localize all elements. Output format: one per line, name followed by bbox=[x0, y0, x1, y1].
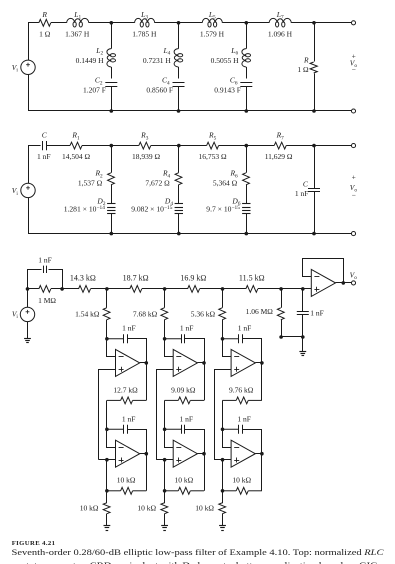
wire N1 to minus1 bbox=[165, 339, 174, 357]
capacitor 1 nF GIC upper bbox=[165, 338, 181, 340]
wire bbox=[28, 22, 39, 24]
wire out1 down bbox=[146, 363, 148, 401]
wire bbox=[47, 145, 71, 147]
svg-text:11.5 kΩ: 11.5 kΩ bbox=[239, 274, 265, 283]
wire N1 to minus1 bbox=[107, 339, 116, 357]
wire GIC top bbox=[222, 289, 224, 308]
wire bbox=[142, 288, 165, 290]
svg-text:1.096 H: 1.096 H bbox=[268, 30, 293, 39]
wire shunt C upper bbox=[314, 146, 316, 189]
capacitor C shunt 1 nF bbox=[308, 188, 320, 190]
wire left rail upper (top ckt) bbox=[28, 23, 30, 60]
svg-text:1.54 kΩ: 1.54 kΩ bbox=[75, 309, 100, 318]
node load bottom bbox=[312, 109, 316, 113]
wire branch R2 upper bbox=[111, 146, 113, 173]
resistor 18.7 kohm bbox=[130, 286, 142, 293]
wire bbox=[291, 22, 314, 24]
wire bypass left bbox=[28, 270, 42, 289]
wire branch R6 upper bbox=[246, 146, 248, 173]
node N3 bbox=[221, 428, 225, 432]
wire out1 down bbox=[261, 363, 263, 401]
wire branch middle bbox=[178, 185, 180, 204]
wire branch middle bbox=[178, 67, 180, 79]
svg-text:7,672 Ω: 7,672 Ω bbox=[145, 178, 170, 187]
svg-text:1 nF: 1 nF bbox=[237, 414, 251, 423]
svg-text:R: R bbox=[41, 10, 47, 19]
wire bbox=[286, 145, 314, 147]
capacitor 1 nF GIC upper bbox=[223, 338, 239, 340]
svg-text:16,753 Ω: 16,753 Ω bbox=[199, 152, 228, 161]
wire bbox=[219, 145, 247, 147]
wire shunt C lower bbox=[314, 192, 316, 234]
node out1 bbox=[145, 361, 149, 365]
wire bbox=[222, 22, 246, 24]
node N5 bbox=[221, 489, 225, 493]
op-amp GIC lower bbox=[231, 440, 255, 467]
inductor L3 bbox=[135, 18, 155, 22]
wire bbox=[62, 288, 78, 290]
op-amp GIC upper bbox=[173, 349, 197, 376]
node source-rail bbox=[26, 287, 30, 291]
wire bbox=[28, 145, 41, 147]
wire to N1 bbox=[164, 320, 166, 339]
node shunt C bottom bbox=[312, 232, 316, 236]
capacitor C2 bbox=[105, 82, 117, 84]
resistor 9.76 kΩ bbox=[223, 399, 237, 401]
wire bottom rail (mid ckt) bbox=[28, 233, 352, 235]
capacitor C series 1 nF bbox=[42, 141, 44, 150]
node shunt join left bbox=[279, 335, 283, 339]
wire bbox=[314, 22, 352, 24]
resistor 1 Mohm input bbox=[39, 286, 51, 293]
source Vi (bot ckt) bbox=[20, 307, 34, 321]
wire plus1 to plus2 (far-left) bbox=[99, 370, 116, 460]
node out1 bbox=[260, 361, 264, 365]
wire to 10k vert bbox=[164, 491, 166, 504]
svg-text:1 nF: 1 nF bbox=[37, 152, 51, 161]
terminal out+ (mid ckt) bbox=[351, 144, 355, 148]
op-amp GIC lower bbox=[173, 440, 197, 467]
svg-text:1 nF: 1 nF bbox=[180, 324, 194, 333]
wire bypass right bbox=[49, 270, 63, 289]
node plus2 bbox=[221, 458, 225, 462]
svg-text:−: − bbox=[352, 191, 356, 200]
capacitor 1 nF GIC lower bbox=[223, 428, 239, 430]
ground at source bbox=[24, 339, 31, 343]
resistor 14.3 kohm bbox=[79, 286, 91, 293]
resistor R5 bbox=[207, 142, 219, 149]
svg-text:10 kΩ: 10 kΩ bbox=[117, 476, 136, 485]
wire plus1 to plus2 (far-left) bbox=[157, 370, 174, 460]
node out2 bbox=[260, 452, 264, 456]
wire N1 to minus1 bbox=[223, 339, 232, 357]
svg-text:1 nF: 1 nF bbox=[295, 189, 309, 198]
wire N5 vertical bbox=[164, 460, 166, 491]
svg-text:0.9143 F: 0.9143 F bbox=[214, 86, 241, 95]
node N3 bbox=[105, 428, 109, 432]
svg-text:10 kΩ: 10 kΩ bbox=[232, 476, 251, 485]
svg-text:0.1449 H: 0.1449 H bbox=[76, 56, 105, 65]
wire to ground bbox=[222, 514, 224, 526]
wire shunt cap upper bbox=[302, 289, 304, 311]
svg-text:5.36 kΩ: 5.36 kΩ bbox=[191, 309, 216, 318]
terminal out- (mid ckt) bbox=[351, 232, 355, 236]
node B2 bbox=[163, 287, 167, 291]
svg-text:9.09 kΩ: 9.09 kΩ bbox=[171, 386, 196, 395]
svg-text:1.06 MΩ: 1.06 MΩ bbox=[246, 307, 274, 316]
wire cap2 to out2 bbox=[243, 430, 262, 454]
wire 1.06M lower bbox=[282, 320, 303, 337]
resistor 5.36 kΩ bbox=[219, 308, 226, 320]
resistor 10 kohm horizontal bbox=[107, 490, 121, 492]
inductor L1 bbox=[67, 18, 89, 22]
svg-text:R: R bbox=[303, 56, 309, 65]
wire bbox=[107, 288, 130, 290]
wire GIC top bbox=[164, 289, 166, 308]
svg-text:7.68 kΩ: 7.68 kΩ bbox=[133, 309, 158, 318]
wire branch middle bbox=[111, 67, 113, 79]
resistor R3 bbox=[139, 142, 151, 149]
wire load lower bbox=[314, 74, 316, 112]
FDNR D6 bbox=[242, 204, 250, 214]
wire to ground bbox=[106, 514, 108, 526]
svg-text:1 nF: 1 nF bbox=[238, 324, 252, 333]
node branch bottom (mid ckt) bbox=[177, 232, 181, 236]
resistor 7.68 kΩ bbox=[161, 308, 168, 320]
wire bbox=[28, 288, 39, 290]
wire left rail lower (top ckt) bbox=[28, 75, 30, 112]
wire GIC top bbox=[106, 289, 108, 308]
svg-text:14.3 kΩ: 14.3 kΩ bbox=[70, 274, 96, 283]
wire bbox=[258, 288, 281, 290]
wire buffer feedback bbox=[303, 259, 344, 283]
resistor R7 bbox=[274, 142, 286, 149]
wire branch L6 upper bbox=[246, 23, 248, 49]
node 4 (mid ckt) bbox=[312, 144, 316, 148]
wire N5 vertical bbox=[222, 460, 224, 491]
node N5 bbox=[163, 489, 167, 493]
ground GIC bbox=[219, 526, 226, 531]
svg-text:14,504 Ω: 14,504 Ω bbox=[62, 152, 91, 161]
svg-text:5,364 Ω: 5,364 Ω bbox=[213, 178, 238, 187]
svg-text:0.7231 H: 0.7231 H bbox=[143, 56, 172, 65]
wire plus2 row bbox=[98, 459, 115, 461]
svg-text:1 Ω: 1 Ω bbox=[39, 30, 51, 39]
wire branch L2 upper bbox=[111, 23, 113, 49]
op-amp GIC upper bbox=[116, 349, 140, 376]
svg-text:18.7 kΩ: 18.7 kΩ bbox=[123, 274, 149, 283]
wire N3 to minus2 bbox=[165, 430, 174, 448]
wire out2 down bbox=[204, 454, 206, 491]
wire bbox=[151, 145, 179, 147]
node N1 bbox=[163, 337, 167, 341]
resistor 10 kohm horizontal bbox=[165, 490, 179, 492]
node 1 (mid ckt) bbox=[110, 144, 114, 148]
svg-text:+: + bbox=[352, 172, 356, 181]
node B3 bbox=[221, 287, 225, 291]
capacitor 1 nF shunt bbox=[297, 311, 309, 313]
wire source lower (bot ckt) bbox=[27, 322, 29, 339]
resistor 9.09 kΩ bbox=[165, 399, 179, 401]
terminal Vo (bot ckt) bbox=[351, 281, 355, 285]
wire out1 bbox=[197, 362, 204, 364]
svg-text:1 nF: 1 nF bbox=[122, 414, 136, 423]
wire plus2 row bbox=[156, 459, 173, 461]
wire out2 down bbox=[261, 454, 263, 491]
node shunt join bbox=[301, 335, 305, 339]
node branch bottom bbox=[245, 109, 249, 113]
svg-text:0.5055 H: 0.5055 H bbox=[211, 56, 240, 65]
node bypass right bbox=[60, 287, 64, 291]
wire bbox=[89, 22, 112, 24]
wire bbox=[246, 22, 269, 24]
ground GIC bbox=[161, 526, 168, 531]
wire out2 bbox=[197, 453, 204, 455]
node 4 (top ckt) bbox=[312, 21, 316, 25]
svg-text:16.9 kΩ: 16.9 kΩ bbox=[180, 274, 206, 283]
node 1 (top ckt) bbox=[110, 21, 114, 25]
resistor R (source, 1 ohm) bbox=[39, 19, 51, 26]
svg-text:12.7 kΩ: 12.7 kΩ bbox=[113, 386, 138, 395]
resistor R6 bbox=[243, 173, 250, 185]
wire branch middle bbox=[246, 67, 248, 79]
op-amp output buffer bbox=[311, 269, 335, 296]
wire bbox=[111, 22, 134, 24]
wire to ground bbox=[164, 514, 166, 526]
resistor 10 kohm horizontal bbox=[223, 490, 237, 492]
node N1 bbox=[221, 337, 225, 341]
resistor 10 kohm vertical bbox=[161, 503, 168, 514]
svg-text:−: − bbox=[352, 65, 356, 74]
node out1 bbox=[202, 361, 206, 365]
node N1 bbox=[105, 337, 109, 341]
resistor R load 1 ohm bbox=[310, 62, 317, 73]
svg-text:0.8560 F: 0.8560 F bbox=[146, 86, 173, 95]
capacitor 1 nF GIC lower bbox=[165, 428, 181, 430]
op-amp GIC upper bbox=[231, 349, 255, 376]
wire shunt cap lower bbox=[302, 315, 304, 352]
node plus2 bbox=[105, 458, 109, 462]
terminal out+ (top ckt) bbox=[351, 21, 355, 25]
wire to 10k vert bbox=[106, 491, 108, 504]
wire plus2 row bbox=[214, 459, 231, 461]
wire N3 to minus2 bbox=[223, 430, 232, 448]
FDNR D4 bbox=[175, 204, 183, 214]
resistor 16.9 kohm bbox=[188, 286, 200, 293]
capacitor C4 bbox=[173, 82, 185, 84]
wire bbox=[314, 145, 352, 147]
wire N3 vertical bbox=[222, 400, 224, 429]
wire bbox=[200, 288, 223, 290]
wire bbox=[179, 22, 203, 24]
wire source upper (bot ckt) bbox=[27, 289, 29, 307]
wire bbox=[281, 288, 303, 290]
resistor 1.06 Mohm bbox=[277, 308, 284, 320]
svg-text:18,939 Ω: 18,939 Ω bbox=[132, 152, 161, 161]
wire cap2 to out2 bbox=[128, 430, 147, 454]
wire branch L4 upper bbox=[178, 23, 180, 49]
op-amp GIC lower bbox=[116, 440, 140, 467]
ground shunt bbox=[299, 352, 306, 356]
svg-text:1,537 Ω: 1,537 Ω bbox=[78, 178, 103, 187]
node N3 bbox=[163, 428, 167, 432]
svg-text:1 nF: 1 nF bbox=[122, 324, 136, 333]
svg-text:9.76 kΩ: 9.76 kΩ bbox=[229, 386, 254, 395]
ground GIC bbox=[104, 526, 111, 531]
wire buffer output bbox=[336, 282, 352, 284]
wire branch lower bbox=[111, 87, 113, 112]
wire bbox=[82, 145, 111, 147]
wire out2 down bbox=[146, 454, 148, 491]
resistor 12.7 kΩ bbox=[107, 399, 121, 401]
node branch bottom (mid ckt) bbox=[110, 232, 114, 236]
wire branch lower bbox=[246, 87, 248, 112]
wire 1.06M upper bbox=[281, 289, 283, 308]
inductor L7 bbox=[269, 18, 291, 22]
svg-text:1 MΩ: 1 MΩ bbox=[38, 296, 56, 305]
node cap top bbox=[301, 287, 305, 291]
node 2 (top ckt) bbox=[177, 21, 181, 25]
wire load upper bbox=[314, 23, 316, 62]
wire bbox=[51, 288, 62, 290]
svg-text:10 kΩ: 10 kΩ bbox=[137, 504, 156, 513]
wire cap1 to out1 bbox=[243, 339, 262, 363]
wire branch lower bbox=[111, 214, 113, 234]
svg-text:10 kΩ: 10 kΩ bbox=[80, 504, 99, 513]
inductor L5 bbox=[202, 18, 222, 22]
wire to buffer + bbox=[303, 288, 312, 290]
node out2 bbox=[145, 452, 149, 456]
source Vi (mid ckt) bbox=[21, 183, 35, 197]
wire branch middle bbox=[246, 185, 248, 204]
capacitor 1 nF GIC upper bbox=[107, 338, 123, 340]
wire left rail upper (mid ckt) bbox=[28, 146, 30, 184]
wire bbox=[91, 288, 107, 290]
wire plus1 to plus2 (far-left) bbox=[215, 370, 232, 460]
wire to N1 bbox=[222, 320, 224, 339]
svg-text:10 kΩ: 10 kΩ bbox=[174, 476, 193, 485]
wire bbox=[155, 22, 179, 24]
svg-text:1.785 H: 1.785 H bbox=[132, 30, 157, 39]
wire out1 bbox=[255, 362, 262, 364]
resistor R2 bbox=[108, 173, 115, 185]
wire bottom rail (top ckt) bbox=[28, 110, 352, 112]
wire out1 down bbox=[204, 363, 206, 401]
node 1.06M top bbox=[279, 287, 283, 291]
node buffer output bbox=[342, 281, 346, 285]
node out2 bbox=[202, 452, 206, 456]
terminal out- (top ckt) bbox=[351, 109, 355, 113]
wire to 10k vert bbox=[222, 491, 224, 504]
wire cap2 to out2 bbox=[185, 430, 205, 454]
wire N3 vertical bbox=[106, 400, 108, 429]
svg-text:FIGURE 4.21: FIGURE 4.21 bbox=[12, 540, 56, 547]
node 2 (mid ckt) bbox=[177, 144, 181, 148]
wire branch middle bbox=[111, 185, 113, 204]
wire cap1 to out1 bbox=[185, 339, 205, 363]
svg-text:1 nF: 1 nF bbox=[38, 255, 52, 264]
wire bbox=[165, 288, 188, 290]
wire bbox=[223, 288, 246, 290]
node 3 (top ckt) bbox=[245, 21, 249, 25]
resistor R4 bbox=[175, 173, 182, 185]
svg-text:1.579 H: 1.579 H bbox=[200, 30, 225, 39]
wire branch lower bbox=[178, 214, 180, 234]
resistor 11.5 kohm bbox=[246, 286, 258, 293]
svg-text:Seventh-order 0.28/60-dB ellip: Seventh-order 0.28/60-dB elliptic low-pa… bbox=[12, 548, 384, 557]
node B1 bbox=[105, 287, 109, 291]
wire N3 to minus2 bbox=[107, 430, 116, 448]
svg-text:1.207 F: 1.207 F bbox=[83, 86, 106, 95]
capacitor C6 bbox=[240, 82, 252, 84]
wire N3 vertical bbox=[164, 400, 166, 429]
wire N5 vertical bbox=[106, 460, 108, 491]
wire left rail lower (mid ckt) bbox=[28, 198, 30, 234]
svg-text:1.367 H: 1.367 H bbox=[65, 30, 90, 39]
inductor L6 bbox=[242, 49, 246, 67]
node branch bottom (mid ckt) bbox=[245, 232, 249, 236]
svg-text:11,629 Ω: 11,629 Ω bbox=[265, 152, 293, 161]
FDNR D2 bbox=[107, 204, 115, 214]
wire cap1 to out1 bbox=[128, 339, 147, 363]
wire branch lower bbox=[246, 214, 248, 234]
resistor 10 kohm vertical bbox=[103, 503, 110, 514]
node branch bottom bbox=[110, 109, 114, 113]
wire branch lower bbox=[178, 87, 180, 112]
resistor 1.54 kΩ bbox=[103, 308, 110, 320]
svg-text:1 nF: 1 nF bbox=[310, 308, 324, 317]
resistor 10 kohm vertical bbox=[219, 503, 226, 514]
wire bbox=[246, 145, 274, 147]
capacitor 1 nF GIC lower bbox=[107, 428, 123, 430]
node branch bottom bbox=[177, 109, 181, 113]
wire bbox=[179, 145, 207, 147]
wire bbox=[111, 145, 139, 147]
capacitor 1 nF input bypass bbox=[43, 266, 45, 273]
wire out1 bbox=[140, 362, 147, 364]
svg-text:1 nF: 1 nF bbox=[180, 414, 194, 423]
inductor L4 bbox=[174, 49, 178, 67]
wire out2 bbox=[255, 453, 262, 455]
resistor R1 bbox=[70, 142, 82, 149]
node 3 (mid ckt) bbox=[245, 144, 249, 148]
wire out2 bbox=[140, 453, 147, 455]
node N5 bbox=[105, 489, 109, 493]
svg-text:1 Ω: 1 Ω bbox=[297, 65, 309, 74]
inductor L2 bbox=[107, 49, 111, 67]
wire to N1 bbox=[106, 320, 108, 339]
wire branch R4 upper bbox=[178, 146, 180, 173]
wire bbox=[51, 22, 67, 24]
source Vi (top ckt) bbox=[21, 60, 35, 74]
node plus2 bbox=[163, 458, 167, 462]
svg-text:10 kΩ: 10 kΩ bbox=[195, 504, 214, 513]
